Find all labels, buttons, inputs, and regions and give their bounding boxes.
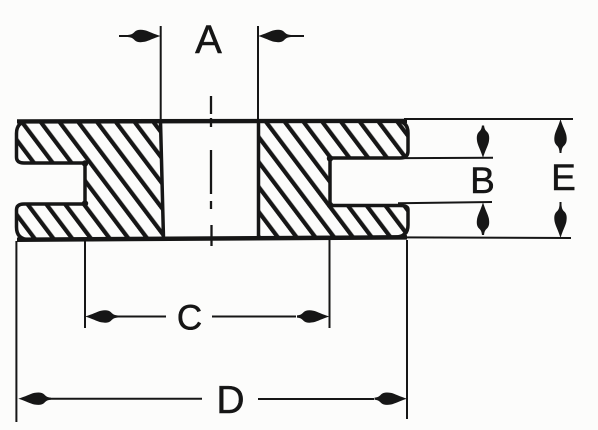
dimension C right extension line <box>329 240 331 328</box>
dimension B top arrow <box>477 126 489 159</box>
dimension D left extension line <box>15 241 17 422</box>
dimension C right arrow <box>212 310 330 322</box>
grommet left section (hatched cross-section) <box>17 121 164 239</box>
svg-text:D: D <box>216 379 244 422</box>
dimension A left extension line <box>160 26 162 119</box>
centerline (dash-dot) <box>210 96 213 246</box>
dimension C left extension line <box>84 241 86 328</box>
dimension D right extension line <box>406 240 408 419</box>
dimension E bottom extension line <box>402 236 571 239</box>
grommet right section (hatched cross-section) <box>259 121 409 238</box>
top edge <box>17 119 407 124</box>
dimension E top extension line <box>404 118 573 120</box>
bottom edge <box>17 237 407 239</box>
dimension B top extension line <box>360 157 493 160</box>
dimension D right arrow <box>258 392 407 404</box>
svg-text:B: B <box>470 160 495 201</box>
dimension B bottom extension line <box>398 202 492 203</box>
svg-text:C: C <box>177 299 202 338</box>
dimension A right arrow <box>258 30 304 42</box>
dimension B bottom arrow <box>477 202 489 235</box>
dimension A right extension line <box>257 26 259 119</box>
dimension E bottom arrow <box>554 202 566 238</box>
dimension A left arrow <box>119 30 161 42</box>
dimension E top arrow <box>554 119 566 153</box>
svg-text:E: E <box>551 157 576 198</box>
dimension D left arrow <box>18 392 202 404</box>
svg-text:A: A <box>195 18 222 62</box>
groove inner corner fillets (ink blobs) <box>82 155 333 208</box>
dimension C left arrow <box>85 310 166 322</box>
